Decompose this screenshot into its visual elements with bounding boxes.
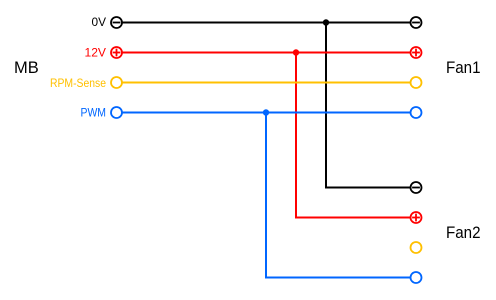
terminal MB PWM [111,107,122,118]
svg-text:PWM: PWM [81,106,107,120]
terminal Fan2 12V (plus) [411,212,422,223]
terminal Fan2 PWM [411,272,422,283]
svg-text:Fan1: Fan1 [446,59,481,77]
terminal Fan1 12V (plus) [411,47,422,58]
wire 0V: MB to Fan1 [122,22,410,24]
junction 0V node [323,19,329,25]
svg-text:Fan2: Fan2 [446,224,481,242]
terminal Fan1 0V (minus) [411,17,422,28]
terminal Fan1 RPM-Sense [411,77,422,88]
terminal Fan2 0V (minus) [411,182,422,193]
terminal MB 0V (minus) [111,17,122,28]
terminal MB RPM-Sense [111,77,122,88]
wire PWM branch to Fan2 [266,113,410,278]
wire PWM: MB to Fan1 [122,112,410,114]
wire RPM-Sense: MB to Fan1 [122,82,410,84]
svg-text:MB: MB [14,59,39,77]
terminal MB 12V (plus) [111,47,122,58]
svg-text:12V: 12V [85,46,107,60]
terminal Fan2 RPM-Sense (unconnected) [411,242,422,253]
svg-text:0V: 0V [92,15,107,29]
junction 12V node [293,49,299,55]
wire 12V: MB to Fan1 [122,52,410,54]
wire 12V branch to Fan2 [296,53,410,218]
wire 0V branch to Fan2 [326,23,410,188]
junction PWM node [263,109,269,115]
svg-text:RPM-Sense: RPM-Sense [50,76,106,90]
terminal Fan1 PWM [411,107,422,118]
